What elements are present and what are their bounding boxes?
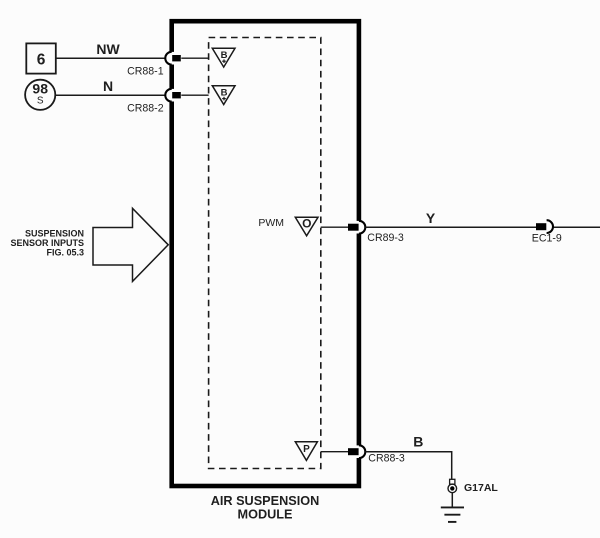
svg-text:CR88-3: CR88-3 [368,453,405,465]
inline connector EC1-9 [532,220,562,244]
module AIR SUSPENSION MODULE outline [172,21,359,486]
input symbol B+ (upper) [212,48,235,67]
svg-text:S: S [37,96,44,107]
module internal dashed boundary [209,38,321,469]
wire CR88-1 pin to input (inside module) [181,57,208,59]
wire PWM output to CR89-3 [321,226,348,228]
svg-text:FIG. 05.3: FIG. 05.3 [46,248,84,258]
connector pin CR88-2 [127,89,181,115]
svg-text:6: 6 [37,52,46,69]
wire Y (EC1-9 to edge) [553,226,600,228]
svg-text:P: P [303,444,310,455]
wire N [55,94,165,96]
wire NW [56,57,166,59]
svg-text:SUSPENSION: SUSPENSION [25,228,84,238]
label SUSPENSION SENSOR INPUTS FIG. 05.3 [10,228,84,257]
connector pin CR88-1 [127,52,181,78]
wire CR88-2 pin to input (inside module) [181,94,208,96]
svg-text:G17AL: G17AL [464,482,498,494]
connector pin CR89-3 [348,221,404,244]
svg-text:98: 98 [32,80,48,96]
ground G17AL [441,479,464,522]
svg-text:CR88-2: CR88-2 [127,103,164,115]
svg-text:PWM: PWM [258,217,284,229]
splice 98 S [25,80,55,110]
svg-text:EC1-9: EC1-9 [532,232,562,244]
svg-text:Y: Y [426,210,436,226]
svg-text:CR89-3: CR89-3 [367,232,404,244]
output symbol P [295,442,317,461]
wire P output to CR88-3 [321,451,348,453]
svg-text:O: O [302,216,311,230]
label AIR SUSPENSION MODULE [211,494,320,522]
svg-text:B: B [413,434,423,450]
input symbol B+ (lower) [212,86,235,105]
svg-text:B: B [221,87,228,98]
wire Y (CR89-3 to EC1-9) [365,226,536,228]
svg-text:N: N [103,78,113,94]
svg-text:AIR SUSPENSION: AIR SUSPENSION [211,494,320,508]
svg-text:MODULE: MODULE [238,508,293,522]
connector box 6 [26,43,56,73]
output symbol O [295,216,318,235]
connector pin CR88-3 [348,445,405,464]
svg-text:SENSOR INPUTS: SENSOR INPUTS [10,238,84,248]
off-page arrow SUSPENSION SENSOR INPUTS [93,208,168,281]
svg-text:CR88-1: CR88-1 [127,66,164,78]
svg-text:B: B [221,50,228,61]
svg-text:NW: NW [96,41,120,57]
wire B [365,452,452,480]
